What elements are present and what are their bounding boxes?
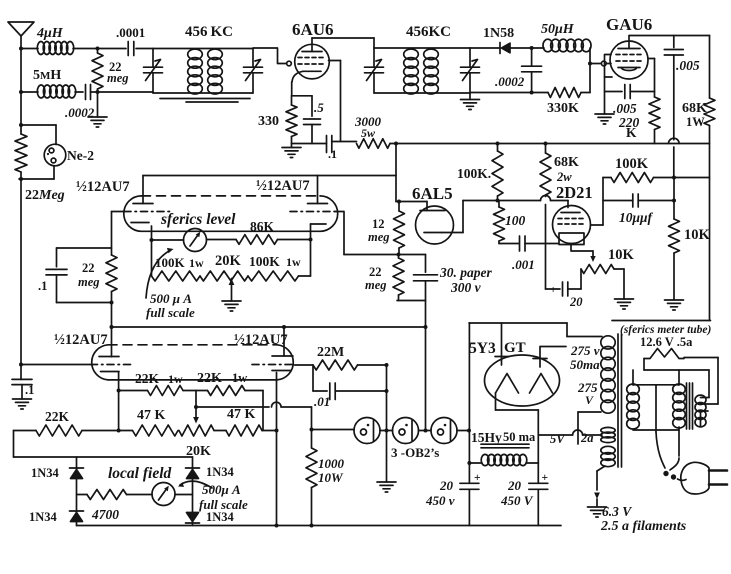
label 5Y3GT [469, 340, 526, 357]
svg-text:1000: 1000 [318, 456, 345, 471]
transformer core [618, 334, 622, 467]
envelope2 right cathode [272, 370, 291, 372]
svg-text:100: 100 [505, 213, 526, 228]
label 20 cathode [569, 295, 583, 309]
svg-text:.0001: .0001 [116, 25, 145, 40]
svg-text:22M: 22M [317, 345, 344, 360]
svg-text:sferics level: sferics level [160, 211, 236, 228]
label 20K lower [186, 444, 211, 459]
arrow 500uA [146, 248, 174, 298]
potentiometer 10K [581, 265, 624, 300]
svg-text:2w: 2w [556, 170, 572, 184]
label 10K pot [608, 247, 635, 263]
6AL5 plate [396, 202, 445, 211]
capacitor .005 screen [605, 85, 655, 99]
wire 0B2 feed [312, 429, 355, 431]
label 50uH [541, 22, 575, 37]
envelope2 left cathode [101, 371, 120, 373]
svg-text:K: K [626, 125, 637, 140]
resistor 22M [295, 360, 387, 370]
label 68K 1W [682, 101, 707, 129]
wire regulated line [196, 402, 312, 407]
resistor 86K [236, 235, 311, 245]
resistor 68K 1W [704, 36, 715, 321]
2D21 internals [558, 213, 584, 245]
tube 6AU6 [295, 44, 330, 79]
label 100K 1w right [249, 254, 301, 269]
wire envelope to detector [335, 212, 426, 257]
resistor 100K 1w left [152, 271, 201, 281]
label 10K right [684, 227, 711, 243]
resistor 12 meg [394, 200, 405, 255]
capacitor 20 450 second [529, 463, 548, 526]
svg-text:+: + [542, 472, 549, 484]
coil 5MH [21, 85, 83, 98]
svg-text:2.5 a filaments: 2.5 a filaments [600, 519, 687, 534]
label .1 grid1 [38, 279, 47, 293]
resistor 22 meg grid [92, 47, 103, 95]
svg-text:500μ A: 500μ A [202, 482, 241, 497]
label 4uH [36, 26, 64, 41]
IF transformer 456KC secondary [208, 49, 223, 94]
svg-text:20: 20 [507, 478, 522, 493]
svg-text:12.6 V .5a: 12.6 V .5a [640, 335, 693, 349]
resistor 100K plate [603, 173, 674, 183]
wire det bottom node [397, 301, 428, 330]
resistor 22K 1w left [119, 386, 196, 396]
svg-text:15Hy: 15Hy [471, 430, 502, 445]
resistor 330 [286, 96, 297, 144]
svg-text:4μH: 4μH [36, 26, 64, 41]
label 100K mid [457, 166, 491, 181]
svg-text:12: 12 [372, 217, 385, 231]
svg-text:1N34: 1N34 [206, 510, 235, 524]
svg-text:10μμf: 10μμf [619, 210, 654, 225]
resistor 22K 1w right [196, 386, 263, 431]
tube envelope 1/2 12AU7 dual [124, 196, 338, 231]
svg-text:2a: 2a [580, 431, 594, 445]
svg-text:5MH: 5MH [33, 68, 61, 83]
resistor 22 meg par [106, 255, 117, 292]
label .005 screen [613, 101, 637, 116]
svg-text:22: 22 [369, 265, 382, 279]
svg-text:½12AU7: ½12AU7 [54, 332, 108, 348]
resistor 100K mid [492, 142, 503, 201]
svg-text:6AU6: 6AU6 [292, 20, 334, 39]
6AU6 grids [298, 58, 326, 65]
tube 6AL5 [416, 206, 454, 244]
capacitor .1 grid2 [12, 379, 32, 399]
6AU6 plate [302, 38, 322, 52]
variable capacitor IFT1 right [244, 49, 263, 94]
label 5MH [33, 68, 61, 83]
wire mid bus [110, 292, 426, 357]
label 22 meg det [365, 265, 387, 292]
svg-text:10W: 10W [318, 470, 344, 485]
transformer 5V winding [601, 427, 615, 442]
label .0001 [116, 25, 145, 40]
wire grid lower [20, 364, 22, 380]
label 20 450 first [425, 478, 455, 508]
svg-text:47 K: 47 K [137, 408, 166, 423]
svg-text:100K: 100K [249, 254, 280, 269]
svg-text:5w: 5w [361, 126, 376, 140]
label 22M [317, 345, 344, 360]
label 5V 2a [550, 431, 594, 446]
wire grid GAU6 [590, 61, 611, 66]
wire heater right [684, 358, 718, 405]
ground under 22meg [88, 92, 107, 127]
wire 6AU6 screen drop [329, 61, 341, 142]
line cord [656, 432, 686, 480]
wire left rail upper [19, 47, 23, 182]
svg-text:meg: meg [368, 230, 390, 244]
label sferics meter tube [620, 324, 712, 336]
resistor 47K right [226, 425, 277, 436]
wire cathode ground node [292, 143, 327, 145]
svg-text:1w: 1w [168, 372, 183, 386]
svg-text:6AL5: 6AL5 [412, 184, 453, 203]
svg-text:20: 20 [569, 295, 583, 309]
svg-text:full scale: full scale [146, 305, 195, 320]
svg-text:+: + [474, 472, 481, 484]
svg-text:1w: 1w [232, 371, 247, 385]
6AU6 cathode [292, 71, 321, 82]
label 275V 50ma [570, 343, 600, 372]
capacitor 30 paper [414, 255, 438, 301]
envelope2 left plate [99, 356, 119, 358]
wire 68K2w lower [545, 205, 547, 290]
svg-text:3 -OB2’s: 3 -OB2’s [391, 445, 439, 460]
label 20 450 second [500, 478, 534, 508]
label 6AU6 [292, 20, 334, 39]
transformer HV winding [601, 336, 615, 413]
capacitor .1 grid1 [46, 248, 112, 303]
wire 22M to 0B2 row [425, 327, 427, 431]
transformer primary winding [627, 370, 679, 432]
label 6.3V filaments [600, 504, 687, 534]
svg-text:20K: 20K [215, 253, 242, 269]
envelope1 right grid [290, 211, 338, 213]
svg-text:330: 330 [258, 114, 279, 129]
IF transformer 2 primary [404, 49, 419, 94]
ground 6AU6 cathode [282, 144, 301, 158]
wire right cathode drop [275, 373, 279, 525]
envelope2 right grid [252, 364, 295, 366]
diode 1N58 [470, 43, 544, 54]
svg-text:5Y3: 5Y3 [469, 340, 496, 357]
capacitor .0002 det [522, 46, 542, 95]
wire to IFT1 [98, 91, 154, 93]
wire PS top [469, 323, 602, 337]
label 22 meg par [78, 261, 100, 289]
variable capacitor IFT1 left [144, 49, 163, 94]
label 22K [45, 409, 70, 424]
resistor 330K [548, 88, 581, 98]
label .5 [314, 100, 324, 115]
resistor 22Meg [15, 131, 27, 179]
tube 0B2 second [393, 418, 419, 444]
potentiometer 20K lower [179, 425, 226, 436]
label 86K [250, 219, 275, 234]
ground 20K wiper [222, 279, 241, 312]
label 3000 5w [354, 114, 382, 140]
transformer center tap [578, 412, 601, 444]
resistor 22K [14, 425, 133, 436]
label 456KC first [185, 24, 233, 40]
label 1N34 bl [29, 510, 58, 524]
svg-text:100K: 100K [155, 255, 186, 270]
svg-text:86K: 86K [250, 219, 275, 234]
label 22K 1w left [135, 371, 183, 386]
svg-text:5V: 5V [550, 432, 566, 446]
wire GAU6 suppressor [648, 59, 655, 98]
svg-text:meg: meg [107, 71, 129, 85]
svg-text:1w: 1w [286, 255, 301, 269]
capacitor .01 [313, 365, 387, 400]
ground grid2 [13, 399, 32, 409]
resistor 1000 10W [306, 407, 317, 526]
variable capacitor IFT2 left [365, 48, 384, 93]
label .005 plate [676, 58, 700, 73]
resistor 10K right [669, 176, 680, 301]
wire bus bump [669, 138, 680, 177]
svg-text:GT: GT [504, 340, 526, 356]
resistor 68K 2w [540, 142, 551, 197]
wire IFT1 bottom [153, 93, 253, 102]
svg-text:450 v: 450 v [425, 493, 455, 508]
tube GAU6 [610, 41, 648, 79]
wire plates top [143, 142, 398, 202]
wire cathode left drop [150, 231, 154, 276]
wire 0B2 link2 [419, 429, 432, 433]
variable capacitor IFT2 right [461, 48, 480, 93]
wire 0B2 link1 [380, 430, 393, 432]
tube 0B2 first [354, 418, 380, 444]
label 2D21 [556, 183, 593, 202]
label 330K [547, 101, 579, 116]
svg-text:GAU6: GAU6 [606, 15, 652, 34]
coil 4uH [21, 42, 98, 55]
ground 10K [665, 300, 684, 310]
wire 22meg par bottom [57, 302, 112, 304]
envelope1 right plate [308, 176, 328, 204]
resistor 220K [649, 97, 660, 144]
label 22K 1w right [197, 371, 247, 386]
label 275V [577, 380, 598, 407]
label 100K plate [615, 156, 649, 172]
svg-text:68K: 68K [554, 155, 579, 170]
label 12.6V .5a [640, 335, 693, 349]
capacitor 20 450 first [460, 472, 481, 526]
envelope1 left plate [133, 176, 153, 204]
label 22Meg [25, 188, 65, 203]
svg-text:1W: 1W [686, 115, 705, 129]
capacitor .001 [499, 236, 558, 251]
label .01 [314, 394, 330, 409]
svg-text:.1: .1 [328, 147, 337, 161]
tube 0B2 third [431, 418, 457, 444]
wire B+ bus [390, 143, 710, 145]
label 500uA full scale [146, 291, 195, 320]
svg-text:47 K: 47 K [227, 407, 256, 422]
label .001 [512, 257, 535, 272]
antenna [8, 22, 34, 49]
GAU6 cathode [618, 68, 640, 71]
envelope2 left grid [19, 363, 133, 367]
svg-text:Ne-2: Ne-2 [67, 148, 94, 163]
capacitor .0001 [98, 42, 154, 56]
arrow 500uA 2 [178, 481, 212, 488]
label .1 grid2 [25, 383, 34, 397]
svg-text:.5: .5 [314, 100, 324, 115]
svg-text:456KC: 456KC [406, 24, 451, 40]
svg-text:68K: 68K [682, 101, 707, 116]
label 1N34 tl [31, 466, 60, 480]
GAU6 plate [618, 36, 640, 49]
label 47K left [137, 408, 166, 423]
svg-text:100K.: 100K. [457, 166, 491, 181]
svg-text:2D21: 2D21 [556, 183, 593, 202]
envelope1 left cathode [131, 223, 152, 232]
wire 5Y3 output [496, 393, 539, 435]
label 1N58 [483, 26, 514, 41]
label 20K sferics [215, 253, 242, 269]
capacitor .1 screen [327, 136, 332, 153]
5Y3 plate 1 [495, 323, 509, 365]
svg-text:1N58: 1N58 [483, 26, 514, 41]
GAU6 grids [616, 55, 642, 62]
ground pot [615, 299, 634, 309]
svg-text:300 v: 300 v [450, 280, 482, 295]
resistor 4700 [77, 490, 153, 500]
resistor 3000 5w [357, 139, 391, 149]
ground 6.3V [588, 507, 607, 517]
label sferics level [160, 211, 236, 228]
wire heater left [644, 359, 709, 371]
label 330 [258, 114, 279, 129]
svg-text:1N34: 1N34 [29, 510, 58, 524]
wire detector line [463, 196, 568, 208]
wire 22M right drop [385, 363, 389, 482]
svg-text:22K: 22K [197, 371, 222, 386]
wire bottom bus right [612, 320, 711, 322]
diode 1N34 top right [186, 468, 200, 479]
svg-text:full scale: full scale [199, 497, 248, 512]
svg-text:½12AU7: ½12AU7 [76, 179, 130, 195]
label .0002 det [495, 74, 525, 89]
2D21 cathode wire [571, 245, 596, 263]
svg-text:1N34: 1N34 [206, 465, 235, 479]
wire 6.3V lead [594, 466, 605, 506]
5Y3 plate 2 [533, 347, 566, 368]
wire 0B2 out [457, 429, 471, 433]
label GAU6 [606, 15, 652, 34]
svg-text:50 ma: 50 ma [503, 430, 536, 444]
plug [681, 462, 727, 494]
label 100 [505, 213, 526, 228]
label 220K [618, 115, 640, 140]
wire 330K to coil [581, 48, 592, 93]
wire 6AU6 cathode node [292, 82, 312, 96]
svg-text:10K: 10K [684, 227, 711, 243]
coil 50uH [543, 39, 591, 52]
label 12 meg [368, 217, 390, 244]
label 1/2 12AU7 third [54, 332, 108, 348]
label 47K right [227, 407, 256, 422]
wiper 20K lower [193, 391, 199, 424]
envelope1 right cathode [311, 224, 327, 231]
IF transformer 456KC primary [188, 49, 203, 94]
wire IFT2 bottom [374, 92, 470, 94]
wire PS left rail [467, 323, 471, 483]
wire bridge left [76, 457, 78, 526]
svg-text:meg: meg [365, 278, 387, 292]
resistor 22 meg det [393, 255, 404, 301]
wire IFT2 top [374, 47, 470, 49]
6AL5 cathode [424, 201, 463, 233]
label 3-0B2s [391, 445, 439, 460]
tube 2D21 [553, 206, 591, 244]
label 22 meg [107, 60, 129, 85]
svg-text:450 V: 450 V [500, 493, 534, 508]
envelope2 right plate [272, 325, 293, 356]
svg-text:.005: .005 [613, 101, 637, 116]
wire GAU6 plate top [629, 35, 710, 37]
transformer 6.3V winding [601, 446, 615, 466]
envelope1 left grid [112, 212, 171, 256]
label 500uA full scale 2 [199, 482, 248, 512]
filament transformer core [687, 383, 693, 429]
wire IFT1 top [153, 48, 253, 50]
svg-text:20: 20 [439, 478, 454, 493]
wire stub to rail [674, 177, 710, 179]
svg-text:22K: 22K [45, 409, 70, 424]
label 15Hy 50ma [471, 430, 536, 445]
wire 5V lead [538, 430, 602, 435]
potentiometer 20K sferics [200, 271, 248, 281]
label 1000 10W [318, 456, 345, 485]
label 1N34 tr [206, 465, 235, 479]
label Ne-2 [67, 148, 94, 163]
resistor 100K 1w right [248, 271, 311, 281]
label 100K 1w left [155, 255, 204, 270]
diode 1N34 bottom right [186, 513, 200, 524]
IF transformer 2 secondary [424, 49, 439, 94]
svg-text:.1: .1 [25, 383, 34, 397]
tube 5Y3GT [485, 355, 560, 406]
filament transformer secondary [695, 370, 709, 427]
svg-text:1N34: 1N34 [31, 466, 60, 480]
label 1/2 12AU7 fourth [234, 332, 288, 348]
ground IFT2 [461, 93, 480, 110]
wire bridge right [192, 457, 194, 526]
svg-text:.1: .1 [38, 279, 47, 293]
capacitor 20 cathode [546, 282, 582, 296]
tube envelope 1/2 12AU7 lower dual [92, 345, 294, 380]
svg-text:22Meg: 22Meg [25, 188, 65, 203]
choke 15Hy 50ma [469, 435, 538, 466]
svg-text:50ma: 50ma [570, 357, 600, 372]
meter local field [152, 483, 193, 506]
svg-text:.0002: .0002 [495, 74, 525, 89]
svg-text:V: V [585, 393, 594, 407]
resistor 47K left [133, 425, 179, 436]
heater 12.6V [644, 349, 684, 359]
label 10uuf [619, 210, 654, 225]
meter sferics level [152, 229, 207, 252]
2D21 plate wire [591, 178, 604, 226]
